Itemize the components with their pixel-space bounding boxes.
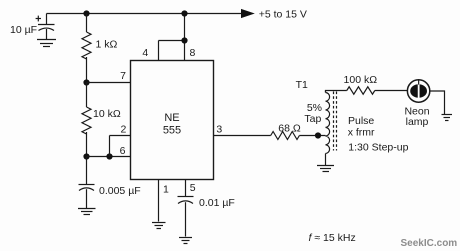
label NE 555 <box>163 112 181 137</box>
wire: pin 1 down <box>158 180 160 222</box>
node G (5% tap) <box>315 132 321 138</box>
wire: pin 4 to pin 8 link <box>159 40 185 42</box>
svg-text:f ≈ 15 kHz: f ≈ 15 kHz <box>309 232 356 244</box>
svg-text:SeekIC.com: SeekIC.com <box>401 238 458 249</box>
resistor R2 10 kOhm <box>82 107 91 134</box>
wire: node D up to pin 2 level <box>109 136 111 157</box>
svg-text:6: 6 <box>120 145 126 157</box>
svg-text:5: 5 <box>190 182 196 194</box>
node A (rail / R1) <box>83 10 89 16</box>
svg-text:68 Ω: 68 Ω <box>278 122 301 134</box>
wire: R1 to node B <box>86 57 88 83</box>
capacitor C1 10 uF <box>36 16 55 31</box>
label Pulse x frmr <box>348 115 375 139</box>
wire: R3 to tap node <box>299 135 325 137</box>
wire: rail to C1 <box>46 14 48 25</box>
ground (neon) <box>442 115 453 121</box>
resistor R4 100 kOhm <box>347 87 375 94</box>
neon lamp DS1 <box>407 80 429 102</box>
svg-text:Pulse: Pulse <box>348 115 374 127</box>
label Neon lamp <box>404 105 429 127</box>
wire: node B to pin 7 <box>87 82 131 84</box>
ground (C3) <box>179 238 192 244</box>
wire: pin 3 out <box>214 135 271 137</box>
svg-text:x frmr: x frmr <box>348 127 375 139</box>
svg-text:10 µF: 10 µF <box>10 24 37 36</box>
wire: node B to R2 <box>86 83 88 108</box>
node D (pin2 branch) <box>106 153 112 159</box>
svg-text:lamp: lamp <box>406 116 429 128</box>
node C (R2/pin6/C2) <box>83 153 89 159</box>
wire: R2 to node C <box>86 132 88 157</box>
svg-text:10 kΩ: 10 kΩ <box>93 108 121 120</box>
svg-text:1: 1 <box>163 184 169 196</box>
svg-text:8: 8 <box>190 47 196 59</box>
transformer T1 winding <box>326 91 330 166</box>
svg-text:1:30 Step-up: 1:30 Step-up <box>348 142 408 154</box>
capacitor C3 0.01 uF <box>178 197 194 204</box>
svg-text:+5 to 15 V: +5 to 15 V <box>259 8 307 20</box>
wire: C2 to ground <box>86 189 88 208</box>
svg-text:T1: T1 <box>296 79 308 91</box>
wire: node C to C2 <box>86 157 88 185</box>
wire: pin 8 to rail <box>184 14 186 61</box>
node E (rail/pin8) <box>181 10 187 16</box>
wire: pin 5 down <box>185 180 187 197</box>
wire: C1 to ground <box>46 29 48 39</box>
svg-text:0.005 µF: 0.005 µF <box>99 185 141 197</box>
op-amp U1 NE555 timer box <box>131 61 214 180</box>
ground (C2) <box>78 209 96 215</box>
wire: C3 to ground <box>185 202 187 236</box>
resistor R1 1 kOhm <box>82 32 91 59</box>
wire: node C to pin 6 <box>87 156 131 158</box>
svg-text:2: 2 <box>120 124 126 136</box>
capacitor C2 0.005 uF <box>79 185 95 191</box>
svg-text:7: 7 <box>120 70 126 82</box>
node B (R1/R2/pin7) <box>83 79 89 85</box>
wire: neon lamp to ground <box>430 91 445 114</box>
svg-text:100 kΩ: 100 kΩ <box>344 74 378 86</box>
svg-text:0.01 µF: 0.01 µF <box>199 197 235 209</box>
arrow to supply <box>241 9 255 18</box>
svg-text:555: 555 <box>163 124 181 136</box>
wire: T1 top to R4 <box>326 91 347 93</box>
svg-text:Tap: Tap <box>304 113 321 125</box>
wire: R4 to neon lamp <box>375 90 408 92</box>
svg-text:NE: NE <box>164 112 179 124</box>
svg-text:4: 4 <box>142 47 148 59</box>
label 5% Tap <box>304 102 322 125</box>
wire: +V top rail <box>47 13 242 15</box>
wire: to pin 2 <box>110 135 131 137</box>
svg-text:1 kΩ: 1 kΩ <box>96 38 118 50</box>
ground (C1) <box>37 40 56 47</box>
node F (pin4/pin8 link) <box>181 37 187 43</box>
ground (T1) <box>317 166 334 172</box>
ground (pin 1) <box>152 223 166 229</box>
svg-text:3: 3 <box>216 124 222 136</box>
wire: pin 4 up <box>158 41 160 61</box>
wire: node A to R1 <box>86 14 88 33</box>
resistor R3 68 Ohm <box>271 132 300 140</box>
transformer core <box>334 92 337 151</box>
